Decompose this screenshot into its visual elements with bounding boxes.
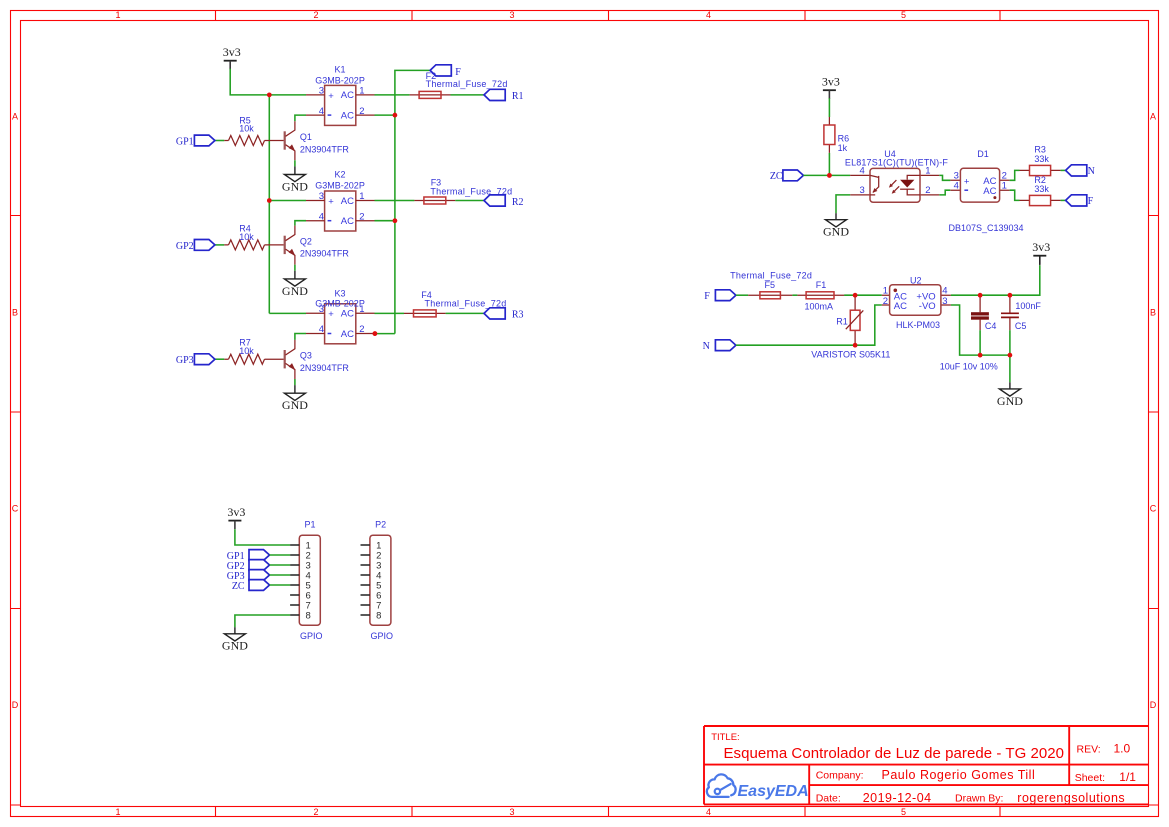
- wire D1 pin2 to R3: [1010, 170, 1020, 180]
- wire fuse F2 to flag R1: [451, 94, 485, 96]
- svg-text:2: 2: [313, 807, 318, 817]
- svg-text:10uF 10v 10%: 10uF 10v 10%: [940, 362, 998, 372]
- svg-text:GP2: GP2: [176, 241, 194, 252]
- svg-text:10k: 10k: [239, 346, 254, 356]
- capacitor C4 10uF (polarized): [940, 295, 998, 371]
- svg-text:1: 1: [1002, 181, 1007, 192]
- wire bottom rail to GND: [1009, 355, 1011, 382]
- svg-text:F: F: [704, 291, 710, 302]
- wire R6 to ZC row: [828, 153, 830, 176]
- net flag GP3 (P1): [249, 570, 270, 581]
- transistor Q1 2N3904TFR: [285, 121, 350, 160]
- net flag N (right): [1066, 165, 1087, 176]
- junction ZC/R6: [827, 173, 832, 178]
- junction dots (overlay): [267, 93, 1012, 358]
- net flag GP1 (input): [194, 135, 215, 146]
- svg-text:rogerengsolutions: rogerengsolutions: [1017, 791, 1125, 805]
- svg-text:B: B: [1150, 308, 1156, 318]
- svg-text:N: N: [1088, 166, 1095, 177]
- power module U2 HLK-PM03: [882, 275, 951, 330]
- fuse F1 100mA: [792, 280, 844, 311]
- svg-text:4: 4: [706, 807, 711, 817]
- svg-text:2: 2: [925, 185, 930, 196]
- junction F rail at K2 pin2 row: [393, 218, 398, 223]
- wire K3 pin3: [269, 312, 306, 314]
- junction varistor bottom: [853, 343, 858, 348]
- wire 3v3 to R6: [828, 98, 830, 117]
- svg-text:N: N: [703, 341, 710, 352]
- node F: vertical rail from flag F: [395, 70, 430, 333]
- svg-text:1.0: 1.0: [1114, 742, 1131, 756]
- svg-text:U2: U2: [910, 275, 922, 285]
- svg-text:C5: C5: [1015, 321, 1027, 331]
- svg-text:F: F: [455, 67, 461, 78]
- svg-text:Q1: Q1: [300, 132, 312, 142]
- junction varistor top: [853, 293, 858, 298]
- wire K2 pin2 to F rail: [375, 220, 395, 222]
- power symbol 3v3 (output): [1032, 240, 1050, 264]
- svg-text:2N3904TFR: 2N3904TFR: [300, 363, 350, 373]
- wire U2 pin4 to 3v3: [951, 265, 1040, 295]
- svg-text:1: 1: [883, 286, 888, 297]
- svg-text:K1: K1: [334, 65, 345, 75]
- svg-text:GPIO: GPIO: [371, 631, 394, 641]
- wire GP3 to P1 pin4: [270, 574, 291, 576]
- net flag GP2 (input): [194, 240, 215, 251]
- wire D1 pin1 to R2: [1010, 190, 1020, 200]
- wire F to fuse F5: [736, 294, 748, 296]
- wire ZC to P1 pin5: [270, 584, 291, 586]
- svg-text:2: 2: [313, 10, 318, 20]
- svg-text:EL817S1(C)(TU)(ETN)-F: EL817S1(C)(TU)(ETN)-F: [845, 157, 949, 167]
- junction C4 top: [978, 293, 983, 298]
- svg-text:HLK-PM03: HLK-PM03: [896, 320, 940, 330]
- capacitor C5 100nF: [1001, 295, 1041, 355]
- net flag ZC (input): [783, 170, 804, 181]
- wire K3 pin1 to fuse F4: [375, 312, 405, 314]
- net flag F (power input): [715, 290, 736, 301]
- svg-text:K3: K3: [334, 288, 345, 298]
- power symbol 3v3 (ZC section): [822, 75, 840, 99]
- svg-text:5: 5: [901, 10, 906, 20]
- wire K3 pin4 to Q3 collector: [295, 334, 306, 340]
- power symbol 3v3 (P1 section): [227, 505, 245, 529]
- svg-text:G3MB-202P: G3MB-202P: [315, 299, 365, 309]
- resistor R3 33k: [1020, 145, 1061, 176]
- title block: [704, 726, 1149, 804]
- resistor R2 33k: [1020, 175, 1061, 206]
- svg-text:VARISTOR S05K11: VARISTOR S05K11: [811, 350, 890, 360]
- svg-text:GPIO: GPIO: [300, 631, 323, 641]
- svg-text:AC: AC: [894, 301, 907, 312]
- wire fuse F4 to flag R3: [446, 312, 484, 314]
- svg-text:4: 4: [954, 181, 959, 192]
- wire K1 pin4 to Q1 collector: [295, 115, 306, 121]
- svg-text:F1: F1: [816, 280, 827, 290]
- svg-text:GP3: GP3: [176, 355, 194, 366]
- ground symbol (P1): [222, 634, 248, 653]
- wire K1 pin1 to fuse F2: [375, 94, 410, 96]
- net flag R1: [484, 89, 505, 100]
- svg-text:8: 8: [376, 610, 381, 621]
- svg-text:K2: K2: [334, 170, 345, 180]
- junction F rail at K3 pin2 row: [373, 331, 378, 336]
- resistor R7 10k: [215, 338, 284, 365]
- relay K2 G3MB-202P: [306, 170, 375, 231]
- svg-text:F: F: [1088, 196, 1094, 207]
- svg-text:EasyEDA: EasyEDA: [738, 783, 809, 800]
- svg-text:2N3904TFR: 2N3904TFR: [300, 144, 350, 154]
- wire fuse F3 to flag R2: [455, 200, 484, 202]
- wire F1 to U2 pin1: [844, 294, 882, 296]
- svg-text:10k: 10k: [239, 232, 254, 242]
- resistor R6 1k: [824, 117, 849, 153]
- EasyEDA logo: [707, 774, 809, 800]
- transistor Q2 2N3904TFR: [285, 226, 350, 265]
- ground symbol (U4): [823, 220, 849, 239]
- net flag F (top): [430, 65, 451, 76]
- svg-text:D1: D1: [977, 149, 989, 159]
- svg-text:Q2: Q2: [300, 236, 312, 246]
- wire R2 to flag F: [1061, 199, 1066, 201]
- svg-text:R2: R2: [512, 197, 524, 208]
- wire N to U2 pin2: [736, 305, 882, 345]
- svg-text:5: 5: [901, 807, 906, 817]
- transistor Q3 2N3904TFR: [285, 340, 350, 379]
- ground symbol (Q3): [282, 393, 308, 412]
- svg-text:3: 3: [509, 807, 514, 817]
- junction C5 top: [1008, 293, 1013, 298]
- net flag F (right): [1066, 195, 1087, 206]
- svg-text:1: 1: [115, 807, 120, 817]
- wire ZC to U4 pin4: [803, 174, 850, 176]
- svg-text:33k: 33k: [1034, 154, 1049, 164]
- optocoupler U4 EL817: [845, 149, 949, 202]
- wire P1 pin8 to GND: [235, 615, 290, 627]
- wire K2 pin1 to fuse F3: [375, 200, 415, 202]
- wire K3 pin2 to F rail: [375, 333, 395, 335]
- svg-text:2N3904TFR: 2N3904TFR: [300, 249, 350, 259]
- header P1 GPIO: [290, 520, 322, 642]
- svg-text:Paulo Rogerio Gomes Till: Paulo Rogerio Gomes Till: [882, 768, 1036, 782]
- svg-text:REV:: REV:: [1077, 744, 1101, 756]
- svg-text:1: 1: [115, 10, 120, 20]
- svg-text:100mA: 100mA: [805, 301, 834, 311]
- svg-text:D: D: [12, 700, 19, 710]
- resistor R4 10k: [215, 223, 284, 250]
- svg-text:+: +: [964, 177, 970, 188]
- wire U4 pin2 to D1 pin4: [939, 190, 950, 195]
- thermal fuse F2: [410, 71, 508, 98]
- thermal fuse F5: [730, 271, 812, 299]
- svg-text:P1: P1: [304, 520, 315, 530]
- svg-text:-VO: -VO: [919, 301, 936, 312]
- wire GP1 to P1 pin2: [270, 554, 291, 556]
- relay K1 G3MB-202P: [306, 65, 375, 126]
- svg-text:G3MB-202P: G3MB-202P: [315, 75, 365, 85]
- svg-text:3: 3: [942, 296, 947, 307]
- wire K1 pin2 to F rail: [375, 114, 395, 116]
- svg-text:Esquema Controlador de Luz de: Esquema Controlador de Luz de parede - T…: [724, 745, 1065, 762]
- svg-text:1/1: 1/1: [1119, 770, 1136, 784]
- svg-text:3: 3: [860, 185, 865, 196]
- wire Q1 emitter to GND: [294, 160, 296, 166]
- svg-text:Date:: Date:: [816, 793, 841, 805]
- net flag GP2 (P1): [249, 560, 270, 571]
- wire Q3 emitter to GND: [294, 379, 296, 385]
- svg-text:R1: R1: [512, 91, 524, 102]
- ground symbol (power): [997, 389, 1023, 408]
- ground symbol (Q1): [282, 175, 308, 194]
- svg-text:4: 4: [706, 10, 711, 20]
- varistor R1 S05K11: [811, 295, 890, 360]
- net flag ZC (P1): [249, 580, 270, 591]
- svg-text:8: 8: [306, 610, 311, 621]
- svg-text:100nF: 100nF: [1015, 301, 1041, 311]
- ground symbol (Q2): [282, 279, 308, 298]
- svg-text:D: D: [1150, 700, 1157, 710]
- svg-text:Q3: Q3: [300, 351, 312, 361]
- wire 3v3 to P1 pin1: [235, 529, 290, 545]
- svg-text:A: A: [1150, 112, 1156, 122]
- svg-text:ZC: ZC: [770, 171, 783, 182]
- svg-text:33k: 33k: [1034, 184, 1049, 194]
- resistor R5 10k: [215, 115, 284, 145]
- svg-text:ZC: ZC: [232, 581, 245, 592]
- wire K2 pin3: [269, 200, 306, 202]
- svg-text:10k: 10k: [239, 124, 254, 134]
- power symbol 3v3 (relay section): [223, 45, 241, 69]
- svg-text:R6: R6: [838, 133, 850, 143]
- svg-text:C: C: [12, 504, 19, 514]
- junction C4 bottom: [978, 353, 983, 358]
- net flag R3: [484, 308, 505, 319]
- wire R3 to flag N: [1061, 169, 1066, 171]
- junction C5 bottom: [1008, 353, 1013, 358]
- svg-text:C4: C4: [985, 321, 997, 331]
- net flag N (power input): [715, 340, 736, 351]
- junction F rail at K1 pin2 row: [393, 113, 398, 118]
- thermal fuse F4: [404, 290, 507, 317]
- svg-text:AC: AC: [983, 186, 996, 197]
- svg-text:2: 2: [883, 296, 888, 307]
- junction at 3v3 rail row K1: [267, 93, 272, 98]
- svg-text:DB107S_C139034: DB107S_C139034: [948, 223, 1023, 233]
- junction at 3v3 rail row K2: [267, 198, 272, 203]
- wire 3v3 stem to K1 pin3 row: [230, 69, 306, 95]
- wire U4 pin1 to D1 pin3: [939, 175, 950, 180]
- svg-text:Company:: Company:: [816, 770, 864, 782]
- wire left column vertical 3v3 rail: [268, 95, 270, 314]
- svg-text:Thermal_Fuse_72d: Thermal_Fuse_72d: [426, 79, 508, 89]
- svg-text:F5: F5: [765, 280, 776, 290]
- net flag R2: [484, 195, 505, 206]
- wire GP2 to P1 pin3: [270, 564, 291, 566]
- wire K2 pin4 to Q2 collector: [295, 221, 306, 226]
- svg-text:Drawn By:: Drawn By:: [955, 793, 1003, 805]
- svg-text:1k: 1k: [838, 143, 848, 153]
- svg-text:C: C: [1150, 504, 1157, 514]
- svg-text:B: B: [12, 308, 18, 318]
- thermal fuse F3: [414, 177, 512, 204]
- svg-text:Sheet:: Sheet:: [1075, 772, 1105, 784]
- net flag GP3 (input): [194, 354, 215, 365]
- header P2 GPIO: [361, 520, 394, 642]
- wire U4 pin3 to GND: [836, 195, 850, 213]
- wire Q2 emitter to GND: [294, 265, 296, 271]
- svg-text:A: A: [12, 112, 18, 122]
- svg-text:R1: R1: [836, 316, 848, 326]
- svg-text:TITLE:: TITLE:: [711, 732, 740, 743]
- wire U2 pin3 to bottom rail: [951, 305, 1010, 355]
- bridge rectifier D1 DB107S: [948, 149, 1023, 233]
- relay K3 G3MB-202P: [306, 288, 375, 343]
- net flag GP1 (P1): [249, 550, 270, 561]
- svg-text:G3MB-202P: G3MB-202P: [315, 181, 365, 191]
- svg-text:3: 3: [509, 10, 514, 20]
- svg-text:R3: R3: [512, 310, 524, 321]
- svg-text:P2: P2: [375, 520, 386, 530]
- svg-text:4: 4: [942, 286, 947, 297]
- svg-text:2019-12-04: 2019-12-04: [863, 791, 932, 805]
- svg-text:GP1: GP1: [176, 137, 194, 148]
